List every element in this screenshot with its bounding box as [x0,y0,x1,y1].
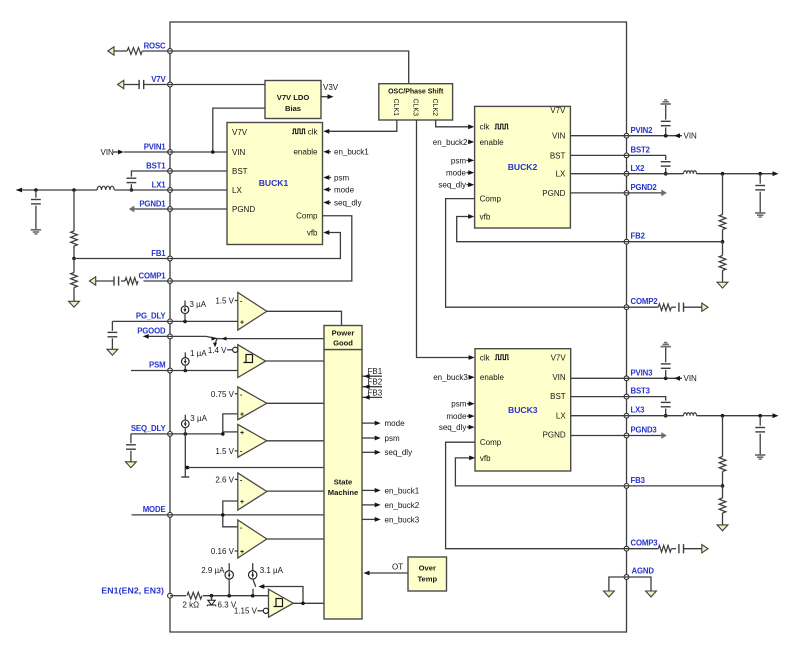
svg-text:LX1: LX1 [152,181,167,190]
block State Machine [324,350,362,619]
input en_buck3 to BUCK3 [433,373,474,382]
capacitor bootstrap C-BST2 [627,155,671,173]
resistor R-FB1 top [71,190,78,259]
svg-text:mode: mode [446,412,467,421]
arrow LX1 rail end [16,188,22,193]
inductor L2 [684,171,697,174]
junction SEQ_DLY current source [184,432,188,436]
svg-text:LX3: LX3 [631,406,646,415]
svg-text:PGND: PGND [232,205,255,214]
svg-text:BUCK3: BUCK3 [508,405,538,415]
arrow LX3 rail end [773,413,779,418]
pin AGND [624,567,654,580]
wire SEQ_DLY sense branch [181,434,189,477]
label plus SEQ hi comp [240,412,244,419]
wire Comp BUCK2 to COMP2 [446,199,627,308]
svg-text:PSM: PSM [149,361,165,370]
label BUCK2 vfb [480,212,491,221]
label BUCK1 left pins [232,128,255,214]
junction FB2 divider [721,240,725,244]
wire LX1 output rail [17,189,171,191]
junction MODE bracket [221,513,225,517]
svg-text:PVIN1: PVIN1 [144,143,167,152]
label plus SEQ lo comp [240,430,244,437]
pin BST2 [624,145,651,157]
wire PowerGood to PGOOD [170,336,324,338]
svg-text:FB2: FB2 [368,378,383,387]
ground FB2 divider [717,282,728,288]
wire BUCK3 PGND to PGND3 [571,435,627,437]
svg-text:BST2: BST2 [631,145,651,154]
wire SEQ sense to state machine [188,467,324,469]
svg-text:V7V LDO: V7V LDO [277,93,310,102]
svg-text:BST: BST [550,151,566,160]
buck converter U-BUCK1 [227,123,323,245]
junction EN out feedback [301,602,305,606]
resistor R-FB3 bottom [719,486,726,525]
svg-text:+: + [240,549,244,556]
svg-text:Machine: Machine [328,488,358,497]
wire SEQ hi comp out [267,402,324,404]
junction L3 to output cap3 [758,414,762,418]
svg-text:FB1: FB1 [151,249,166,258]
svg-text:LX: LX [556,170,566,179]
wire Comp BUCK3 to COMP3 [446,442,627,549]
label CLK3 [412,99,419,117]
label 2 kOhm [183,600,200,609]
off-page arrow COMP2 [702,303,708,311]
wire OT to state machine [364,563,409,576]
ground AGND right [646,591,657,597]
junction L2 to output cap2 [758,172,762,176]
capacitor C-COMP2 [679,303,702,312]
wire FB1 external [74,258,170,260]
capacitor C-OUT2 [755,174,765,213]
label 0.75V ref [211,390,243,399]
junction PVIN2 cap [664,134,668,138]
svg-text:1.15 V: 1.15 V [234,607,258,616]
pin ROSC [144,42,173,54]
svg-text:3.1 µA: 3.1 µA [260,566,284,575]
pin FB1 [151,249,172,261]
svg-text:psm: psm [385,434,400,443]
svg-text:1.4 V: 1.4 V [208,346,227,355]
svg-text:1 µA: 1 µA [190,349,207,358]
pin FB3 [624,476,645,488]
LDO block V7V LDO Bias [265,81,321,119]
svg-text:Comp: Comp [296,212,318,221]
input en_buck2 to BUCK2 [433,138,474,147]
wire PG comp out to PowerGood [267,311,342,325]
wire PSM schmitt out [266,360,324,362]
svg-text:CLK1: CLK1 [392,99,399,117]
off-page arrow V7V [118,80,124,88]
svg-text:en_buck3: en_buck3 [385,515,420,524]
resistor R-FB3 top [719,416,726,486]
label BUCK3 vfb [480,454,491,463]
input psm to BUCK2 [451,156,474,165]
current source 3.1uA [249,563,284,579]
label minus MODE lo comp [240,525,243,532]
svg-text:CLK2: CLK2 [431,99,438,117]
pin COMP1 [139,272,173,284]
svg-text:LX: LX [556,412,566,421]
wire PVIN1 to BUCK1 VIN [170,151,227,153]
pin PG_DLY [136,311,172,323]
output seq_dly [362,448,412,457]
pin LX2 [624,164,645,176]
svg-text:BST1: BST1 [146,162,166,171]
svg-text:LX: LX [232,186,242,195]
label BUCK1 clk [292,127,318,136]
wire LX2 output rail [627,173,775,175]
svg-text:3 µA: 3 µA [190,300,207,309]
pin LX3 [624,406,645,418]
svg-text:enable: enable [480,373,505,382]
pin BST1 [146,162,172,174]
junction EN1 zener [210,594,214,598]
arrow VIN right2 [674,132,697,141]
svg-text:V7V: V7V [550,106,566,115]
arrow SEQ sense junction [186,466,191,470]
current source 3uA PG_DLY [181,300,207,321]
svg-text:3 µA: 3 µA [190,414,207,423]
svg-text:seq_dly: seq_dly [334,198,362,207]
current source 2.9uA [201,563,233,596]
svg-text:FB2: FB2 [631,232,646,241]
svg-text:+: + [240,412,244,419]
svg-text:vfb: vfb [307,229,318,238]
junction FB3 divider [721,484,725,488]
svg-text:Bias: Bias [285,104,301,113]
wire SEQ_DLY to comparators [170,433,223,435]
svg-text:PGND: PGND [543,431,566,440]
ground arrow PGND2 [661,190,667,197]
label V3V [323,83,339,92]
svg-text:PGOOD: PGOOD [137,327,166,336]
inductor L3 [684,413,697,416]
svg-text:+: + [240,430,244,437]
svg-text:OT: OT [392,563,403,572]
wire VIN input arrow [113,150,170,155]
svg-text:Good: Good [333,338,353,347]
wire LDO input from PVIN1 [213,108,265,152]
ground FB3 divider [717,525,728,531]
svg-text:seq_dly: seq_dly [385,448,413,457]
wire BUCK2 LX to LX2 [570,173,626,175]
label plus MODE hi comp [240,499,244,506]
svg-text:LX2: LX2 [631,164,646,173]
capacitor bootstrap C-BST1 [127,171,171,190]
capacitor C-PG_DLY [108,321,171,349]
label CLK1 [392,99,399,117]
capacitor C-IN2 [661,105,671,136]
label BUCK1 enable [293,148,318,157]
resistor R-COMP2 [627,304,677,311]
svg-text:PGND3: PGND3 [631,426,658,435]
svg-text:PGND: PGND [542,189,565,198]
svg-text:enable: enable [293,148,318,157]
svg-text:Comp: Comp [480,195,502,204]
input mode to BUCK3 [446,412,474,421]
svg-text:enable: enable [480,138,505,147]
comparator SEQ 0.75V [238,387,267,420]
wire BUCK2 BST to BST2 [570,154,626,156]
comparator SEQ 1.5V [238,424,267,457]
svg-text:COMP1: COMP1 [139,272,167,281]
wire BUCK2 PGND to PGND2 [570,192,626,194]
switch EN hysteresis [253,579,256,596]
svg-text:1.5 V: 1.5 V [215,296,234,305]
svg-text:BUCK2: BUCK2 [508,162,538,172]
wire FB3 to vfb BUCK3 [455,456,722,486]
junction BST3 cap on LX3 [664,414,668,418]
wire PGOOD branch down [213,339,217,348]
svg-text:en_buck1: en_buck1 [385,486,420,495]
svg-text:V7V: V7V [232,128,248,137]
input FB1 to state machine [362,367,383,378]
wire MODE to state machine [170,514,324,516]
comparator MODE 0.16V [238,520,267,558]
label BUCK3 right pins [543,353,567,439]
ground arrow PGND3 [661,432,667,439]
wire BUCK3 BST to BST3 [571,396,627,398]
label 1.5V ref PG [215,296,243,305]
svg-text:en_buck2: en_buck2 [433,138,468,147]
svg-text:EN1(EN2, EN3): EN1(EN2, EN3) [101,585,164,595]
svg-text:PG_DLY: PG_DLY [136,311,167,320]
resistor 2k EN1 [170,592,269,599]
pin BST3 [624,387,651,399]
label BUCK3 clk [480,353,509,362]
wire LX3 output rail [627,415,775,417]
label BUCK2 Comp [480,195,502,204]
off-page arrow ROSC [108,47,114,55]
off-page arrow COMP3 [702,545,708,553]
junction L3 to divider3 [721,414,725,418]
junction PVIN1-LDO [211,150,215,154]
capacitor C-OUT1 [31,190,41,229]
svg-text:+: + [240,499,244,506]
wire PSM to schmitt [170,370,238,372]
junction L2 to divider2 [721,172,725,176]
ground AGND left [604,591,615,597]
label 0.16V ref [211,547,244,556]
svg-text:COMP3: COMP3 [631,539,659,548]
capacitor bootstrap C-BST3 [627,397,671,416]
svg-text:BST: BST [550,392,566,401]
pin COMP2 [624,297,658,309]
svg-text:VIN: VIN [552,132,566,141]
label 2.6V ref [215,475,243,484]
svg-text:mode: mode [334,185,355,194]
junction PSM current source [184,369,188,373]
comparator MODE 2.6V [238,473,267,510]
resistor R-COMP3 [627,545,677,552]
schmitt comparator EN 1.15V [269,589,294,617]
pin LX1 [152,181,173,193]
svg-text:psm: psm [451,400,466,409]
ground C-PG_DLY [107,349,118,355]
capacitor C-OUT3 [755,416,765,455]
svg-text:2.6 V: 2.6 V [215,475,234,484]
output psm [362,434,400,443]
arrow LX2 rail end [773,171,779,176]
capacitor C-COMP3 [679,544,702,553]
wire PVIN2 to VIN source [627,135,683,137]
wire BUCK3 LX to LX3 [571,415,627,417]
svg-text:clk: clk [480,123,491,132]
ground C-IN2 [661,100,671,104]
pin COMP3 [624,539,658,551]
label CLK2 [431,99,438,117]
wire FB1 to vfb [170,230,340,258]
junction EN1 3.1uA [251,594,255,598]
pin PVIN1 [144,143,173,155]
resistor ROSC external [114,48,170,55]
label 6.3 V [218,600,237,609]
input seq_dly to BUCK3 [439,423,475,432]
input FB3 to state machine [362,388,383,399]
capacitor C-IN3 [661,348,671,379]
svg-text:seq_dly: seq_dly [439,423,467,432]
label 1.15V ref [234,607,263,616]
svg-text:Temp: Temp [417,575,437,584]
schmitt comparator PSM 1.4V [238,345,266,378]
off-page arrow COMP1 [90,277,96,285]
resistor R-COMP1 [121,278,170,285]
junction EN1 2.9uA [227,594,231,598]
current source 3uA SEQ_DLY [182,414,208,434]
wire CLK3 to BUCK3 clk [417,120,475,360]
pin PVIN3 [624,368,653,380]
pin EN1 [101,585,172,598]
wire BUCK3 VIN to PVIN3 [571,377,627,379]
svg-text:VIN: VIN [232,148,246,157]
zener diode 6.3V [207,596,216,607]
wire Comp BUCK1 to COMP1 [170,216,352,281]
output en_buck2 [362,501,420,510]
svg-text:en_buck1: en_buck1 [334,148,369,157]
pin V7V [151,75,172,87]
wire MODE stub [132,514,170,516]
label BUCK3 Comp [480,438,502,447]
input mode to BUCK1 [323,185,354,194]
ground C-OUT3 [755,455,765,459]
block Power Good [324,326,362,350]
input FB2 to state machine [362,378,383,389]
wire V7V to LDO [170,84,265,86]
pin PVIN2 [624,126,653,138]
junction PG_DLY current source [183,320,187,324]
pin PSM [149,361,172,373]
svg-text:OSC/Phase Shift: OSC/Phase Shift [388,89,444,96]
output mode [362,419,405,428]
block Over Temp [408,557,447,591]
junction PVIN3 cap [664,377,668,381]
wire PGOOD stub out [143,334,170,339]
label BUCK3 enable [480,373,505,382]
ground arrow PGND1 [129,206,135,213]
svg-text:en_buck3: en_buck3 [433,373,468,382]
wire PGND3 stub [627,435,662,437]
svg-text:psm: psm [451,156,466,165]
wire SEQ lo comp out [267,440,324,442]
svg-text:MODE: MODE [143,505,166,514]
input mode to BUCK2 [446,169,474,178]
wire AGND right branch [627,577,652,591]
pin MODE [143,505,173,517]
svg-text:2 kΩ: 2 kΩ [183,600,200,609]
svg-text:1.5 V: 1.5 V [215,447,234,456]
svg-text:+: + [240,320,244,327]
wire EN feedback to switch [258,584,303,603]
svg-text:SEQ_DLY: SEQ_DLY [131,424,167,433]
svg-text:mode: mode [446,169,467,178]
junction SEQ_DLY bracket [221,432,225,436]
junction BST1 cap on LX1 [130,188,134,192]
wire PVIN3 to VIN source [627,377,683,379]
label BUCK2 right pins [542,106,566,198]
svg-text:BST3: BST3 [631,387,651,396]
resistor R-FB2 top [719,174,726,242]
svg-text:V3V: V3V [323,83,339,92]
label 1.4V ref PSM [208,346,233,355]
junction L1 to output cap [34,188,38,192]
buck converter U-BUCK3 [475,349,571,471]
svg-text:VIN: VIN [684,132,698,141]
comparator PG 1.5V [238,293,267,331]
inversion bubble EN [263,608,268,613]
wire MODE hi comp out [267,490,324,492]
svg-text:State: State [334,478,353,487]
inductor L1 [97,186,114,190]
svg-text:BUCK1: BUCK1 [259,178,289,188]
svg-text:vfb: vfb [480,454,491,463]
capacitor C-SEQ_DLY [126,434,170,462]
wire PGND1 to BUCK1 PGND [170,208,227,210]
input seq_dly to BUCK1 [323,198,361,207]
wire PGND2 stub [627,192,662,194]
wire ROSC to oscillator [170,51,409,84]
wire MODE lo comp out [267,538,324,540]
resistor R-FB1 bottom [71,259,78,302]
bracket SEQ_DLY inputs [223,414,238,434]
current source 1uA PSM [182,349,208,371]
pin PGOOD [137,327,172,339]
svg-text:COMP2: COMP2 [631,297,659,306]
svg-text:seq_dly: seq_dly [438,181,466,190]
IC boundary [170,22,627,632]
wire FB2 to vfb BUCK2 [457,214,723,242]
input seq_dly to BUCK2 [438,181,474,190]
junction FB1 divider [72,257,76,261]
label BUCK1 vfb [307,229,318,238]
ground C-OUT2 [755,213,765,217]
oscillator block OSC/Phase Shift [379,84,453,120]
arrow VIN right3 [674,374,697,383]
wire CLK1 to BUCK1 clk [323,120,397,134]
svg-text:PGND2: PGND2 [631,183,658,192]
buck converter U-BUCK2 [475,106,571,228]
label BUCK2 enable [480,138,505,147]
svg-text:0.75 V: 0.75 V [211,390,235,399]
svg-text:PVIN3: PVIN3 [631,368,654,377]
resistor R-FB2 bottom [719,242,726,283]
svg-text:FB3: FB3 [631,476,646,485]
svg-text:VIN: VIN [101,148,115,157]
pin FB2 [624,232,645,244]
